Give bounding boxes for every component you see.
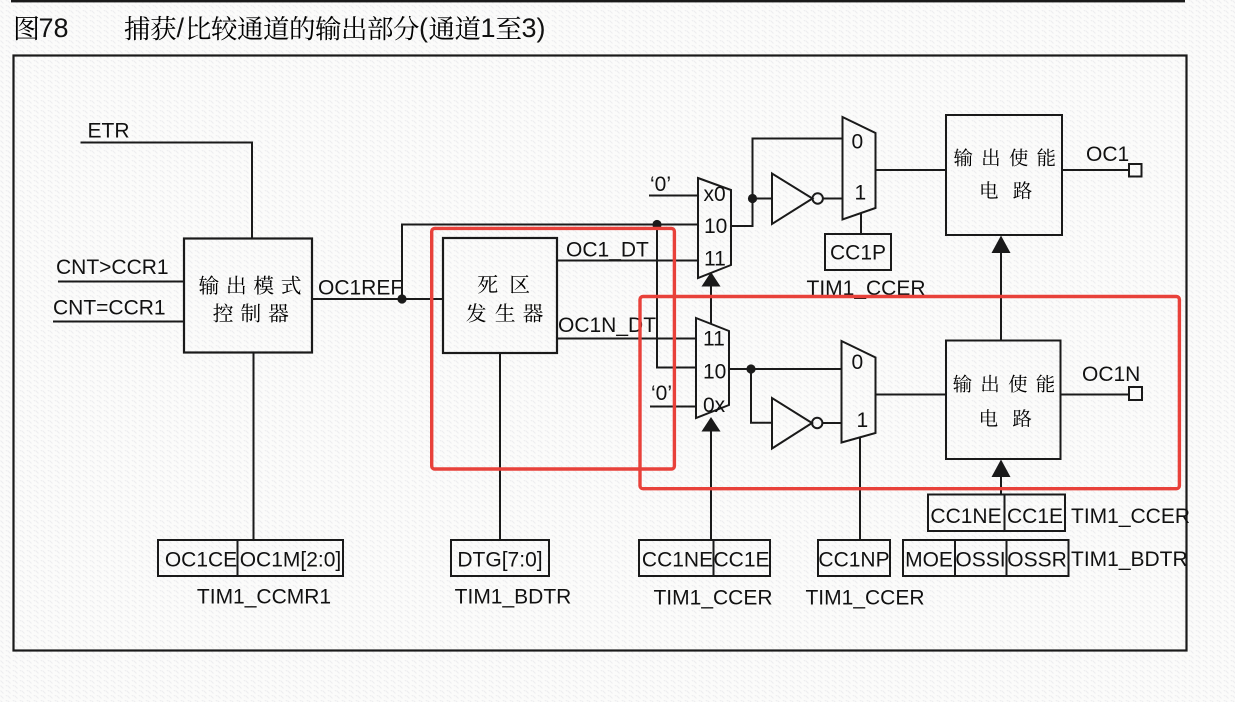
- wire CNT>CCR1: [58, 281, 184, 283]
- svg-text:3: 3: [522, 13, 537, 43]
- wire enable U4 to CC1NE/CC1E register: [1000, 476, 1002, 494]
- svg-text:/: /: [177, 13, 185, 43]
- wire tap down to inverter G2: [751, 369, 772, 423]
- wire inverter G1 output to mux M3 input 1: [823, 198, 843, 200]
- wire lower output enable to OC1N pin: [1061, 394, 1130, 396]
- wire mux M4 output to lower output enable: [876, 394, 947, 396]
- wire enable U3: [1000, 252, 1002, 341]
- arrow select input of mux M1: [702, 272, 721, 287]
- highlight red box dead-time region: [432, 228, 675, 469]
- register bits OC1CE OC1M[2:0]: [158, 540, 343, 576]
- block U4 lower output enable circuit 输出使能电路: [946, 341, 1061, 460]
- highlight red box complementary output region: [640, 297, 1179, 489]
- wire dead-time generator to DTG register: [499, 353, 501, 540]
- top rule bar: [11, 0, 1185, 2]
- junction node upper inverter tap: [748, 194, 757, 203]
- block U1 output mode controller 输出模式控制器: [184, 239, 312, 353]
- svg-text:0: 0: [852, 131, 864, 154]
- junction node OC1REF: [397, 294, 406, 303]
- svg-text:OC1REF: OC1REF: [318, 277, 403, 300]
- wire lower mux M2 output to inverter and mux M4: [729, 368, 842, 370]
- register bits MOE OSSI OSSR: [903, 540, 1069, 577]
- mux M4 lower polarity selector: [842, 341, 876, 443]
- wire ETR: [81, 143, 253, 239]
- svg-text:‘0’: ‘0’: [651, 382, 672, 405]
- title text 捕获/比较通道的输出部分(通道1至3): [125, 13, 546, 43]
- svg-text:x0: x0: [704, 183, 726, 206]
- block U2 dead-time generator 死区发生器: [443, 238, 557, 353]
- svg-text:OC1M[2:0]: OC1M[2:0]: [240, 549, 342, 572]
- wire upper mux M1 output to inverter and mux M3: [731, 139, 843, 227]
- wire select M1: [710, 285, 712, 324]
- wire OC1_DT to upper mux input 11: [557, 260, 698, 262]
- wire inverter G2 output to mux M4 input 1: [823, 422, 842, 424]
- inverter G2 lower: [772, 398, 822, 449]
- svg-text:0: 0: [852, 351, 864, 374]
- wire '0' to lower mux input 0x: [650, 406, 696, 408]
- wire OC1REF branch up to upper mux input 10: [402, 225, 698, 300]
- svg-text:1: 1: [855, 182, 867, 205]
- register bits CC1NE CC1E (enable): [928, 494, 1065, 531]
- svg-text:CNT>CCR1: CNT>CCR1: [56, 256, 169, 279]
- junction node lower inverter tap: [746, 364, 755, 373]
- svg-text:ETR: ETR: [88, 119, 130, 142]
- register bit CC1NP: [818, 540, 890, 576]
- svg-text:CC1E: CC1E: [713, 549, 769, 572]
- mux M1 upper output selector trapezoid: [698, 178, 731, 278]
- wire mux M3 output to upper output enable: [876, 169, 947, 171]
- svg-text:CC1NE: CC1NE: [642, 549, 713, 572]
- wire select M4 to CC1NP register: [859, 438, 861, 541]
- svg-text:OC1N: OC1N: [1082, 363, 1140, 386]
- svg-text:1: 1: [857, 409, 869, 432]
- svg-text:DTG[7:0]: DTG[7:0]: [457, 549, 542, 572]
- svg-text:0x: 0x: [703, 394, 726, 417]
- svg-text:10: 10: [703, 361, 726, 384]
- svg-text:OC1_DT: OC1_DT: [566, 239, 649, 262]
- svg-text:TIM1_CCER: TIM1_CCER: [653, 587, 772, 610]
- wire '0' to upper mux input x0: [649, 195, 698, 197]
- svg-text:10: 10: [704, 215, 727, 238]
- svg-text:‘0’: ‘0’: [650, 173, 671, 196]
- svg-text:TIM1_BDTR: TIM1_BDTR: [1071, 548, 1188, 571]
- svg-text:OC1CE: OC1CE: [165, 549, 237, 572]
- svg-text:CC1NE: CC1NE: [930, 505, 1001, 528]
- wire upper output enable to OC1 pin: [1062, 169, 1129, 171]
- svg-text:CC1P: CC1P: [830, 242, 886, 265]
- wire select M2 to CC1NE/CC1E register: [710, 430, 712, 540]
- pin OC1 pad: [1129, 164, 1142, 177]
- mux M3 upper polarity selector: [843, 117, 876, 220]
- wire output mode controller to OC1CE/OC1M register: [253, 353, 255, 541]
- arrow select input of mux M2: [702, 417, 721, 432]
- svg-text:TIM1_CCER: TIM1_CCER: [805, 587, 924, 610]
- svg-text:CC1NP: CC1NP: [818, 549, 889, 572]
- title figure number 图78: [16, 13, 69, 43]
- svg-text:1: 1: [481, 13, 496, 43]
- wire select M3 from CC1P: [860, 214, 862, 235]
- svg-text:TIM1_BDTR: TIM1_BDTR: [455, 586, 572, 609]
- svg-text:TIM1_CCER: TIM1_CCER: [1071, 505, 1190, 528]
- svg-text:OC1: OC1: [1086, 143, 1129, 166]
- wire CNT=CCR1: [53, 321, 184, 323]
- svg-text:11: 11: [703, 328, 725, 351]
- svg-text:(: (: [419, 13, 428, 43]
- svg-text:MOE: MOE: [905, 549, 953, 572]
- block U3 upper output enable circuit 输出使能电路: [946, 115, 1062, 235]
- svg-text:TIM1_CCMR1: TIM1_CCMR1: [197, 586, 331, 609]
- arrow enable input of U4: [992, 460, 1011, 478]
- arrow enable input of U3: [992, 236, 1011, 254]
- wire OC1REF branch down to lower mux input 10: [657, 225, 696, 368]
- register bits CC1NE CC1E (mux select): [639, 540, 770, 576]
- register bits DTG[7:0]: [451, 540, 549, 576]
- svg-text:OSSI: OSSI: [955, 549, 1005, 572]
- pin OC1N pad: [1129, 387, 1142, 400]
- svg-text:CC1E: CC1E: [1007, 505, 1063, 528]
- wire OC1N_DT to lower mux input 11: [557, 338, 696, 340]
- register bit CC1P: [825, 234, 891, 270]
- svg-text:78: 78: [39, 13, 69, 43]
- mux M2 lower output selector trapezoid: [696, 318, 729, 418]
- svg-text:): ): [537, 13, 546, 43]
- svg-text:11: 11: [704, 248, 726, 271]
- inverter G1 upper: [772, 174, 823, 225]
- junction node on OC1REF branch: [652, 220, 661, 229]
- svg-text:CNT=CCR1: CNT=CCR1: [53, 297, 166, 320]
- svg-text:OSSR: OSSR: [1007, 549, 1067, 572]
- wire OC1REF: [312, 298, 443, 300]
